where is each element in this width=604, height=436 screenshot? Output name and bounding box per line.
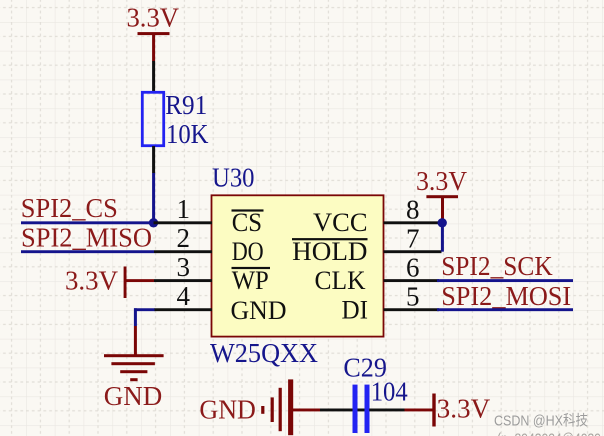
svg-text:4: 4 (177, 281, 191, 311)
svg-text:5: 5 (406, 281, 420, 311)
wire net SPI2_MISO (21, 250, 154, 253)
svg-text:R91: R91 (165, 90, 207, 120)
svg-text:SPI2_CS: SPI2_CS (21, 193, 118, 223)
power port 3.3V (right, at pin 8) (416, 166, 467, 223)
pin name HOLD with overline (292, 237, 368, 266)
wire net SPI2_MOSI (437, 308, 573, 311)
svg-text:SPI2_SCK: SPI2_SCK (441, 251, 553, 281)
pin 5 wire (384, 308, 440, 311)
wire pin7 to junction (navy vertical) (441, 223, 444, 252)
wire C29 to 3.3V (black segment) (369, 409, 405, 412)
ground symbol GND (under pin 4) (104, 354, 164, 381)
wire net SPI2_SCK (437, 279, 573, 282)
power port 3.3V (at pin 3 WP) (65, 265, 154, 298)
svg-text:(p. 8943024@4039: (p. 8943024@4039 (497, 431, 601, 436)
svg-text:GND: GND (231, 296, 287, 325)
pin 4 wire (155, 308, 213, 311)
svg-text:GND: GND (199, 395, 256, 425)
svg-text:W25QXX: W25QXX (210, 338, 318, 368)
wire GND to C29 (dark red segment) (292, 409, 320, 412)
svg-text:SPI2_MOSI: SPI2_MOSI (441, 281, 571, 311)
wire 3.3V bar to R1 top (black segment) (152, 61, 155, 91)
pin 7 wire (384, 250, 442, 253)
svg-text:HOLD: HOLD (292, 237, 367, 266)
svg-text:1: 1 (177, 194, 191, 224)
svg-text:CSDN @HX科技: CSDN @HX科技 (494, 412, 588, 429)
wire C29 to 3.3V (dark red segment) (405, 409, 434, 412)
wire R91 to SPI2_CS node (navy segment) (152, 173, 155, 223)
svg-text:3: 3 (177, 252, 191, 282)
svg-text:SPI2_MISO: SPI2_MISO (21, 222, 152, 252)
svg-text:2: 2 (177, 223, 191, 253)
svg-text:3.3V: 3.3V (437, 393, 491, 423)
junction node (SPI2_CS / R91 / pin1) (149, 218, 158, 227)
svg-text:3.3V: 3.3V (65, 265, 118, 295)
pin name WP with overline (232, 266, 271, 295)
wire net SPI2_CS (21, 221, 154, 224)
svg-text:7: 7 (406, 223, 420, 253)
pin 2 wire (154, 250, 212, 253)
junction node (pin8 / pin7 / 3.3V) (438, 218, 447, 227)
pin name CS with overline (232, 208, 264, 237)
svg-text:VCC: VCC (313, 208, 368, 237)
wire pin4 GND vertical navy segment (134, 308, 137, 326)
pin 8 wire (384, 221, 443, 224)
ground power symbol (horizontal, bottom) (261, 379, 293, 435)
svg-text:CS: CS (232, 208, 262, 237)
pin 3 wire (154, 279, 212, 282)
power port 3.3V (top, above R91) (127, 3, 180, 62)
wire pin4 GND vertical dark red segment (134, 326, 137, 355)
pin 1 wire (154, 221, 213, 224)
svg-text:GND: GND (104, 381, 163, 411)
svg-text:WP: WP (232, 266, 269, 295)
svg-text:3.3V: 3.3V (416, 166, 467, 196)
svg-text:3.3V: 3.3V (127, 3, 180, 33)
wire GND to C29 (black segment) (320, 409, 365, 412)
svg-text:DI: DI (342, 296, 369, 325)
resistor R91 (142, 92, 163, 145)
pin 6 wire (384, 279, 440, 282)
power port 3.3V (bottom right, at C29) (432, 393, 490, 426)
svg-text:CLK: CLK (315, 266, 366, 295)
wire pin4 GND horizontal navy segment (134, 308, 155, 311)
svg-text:8: 8 (406, 194, 420, 224)
IC U30 body (212, 195, 384, 336)
svg-text:6: 6 (406, 252, 420, 282)
wire R91 bottom black segment (152, 146, 155, 173)
capacitor C29 (353, 385, 370, 433)
svg-text:U30: U30 (212, 163, 255, 193)
svg-text:DO: DO (232, 237, 264, 266)
svg-text:104: 104 (371, 377, 408, 407)
svg-text:10K: 10K (166, 119, 209, 149)
